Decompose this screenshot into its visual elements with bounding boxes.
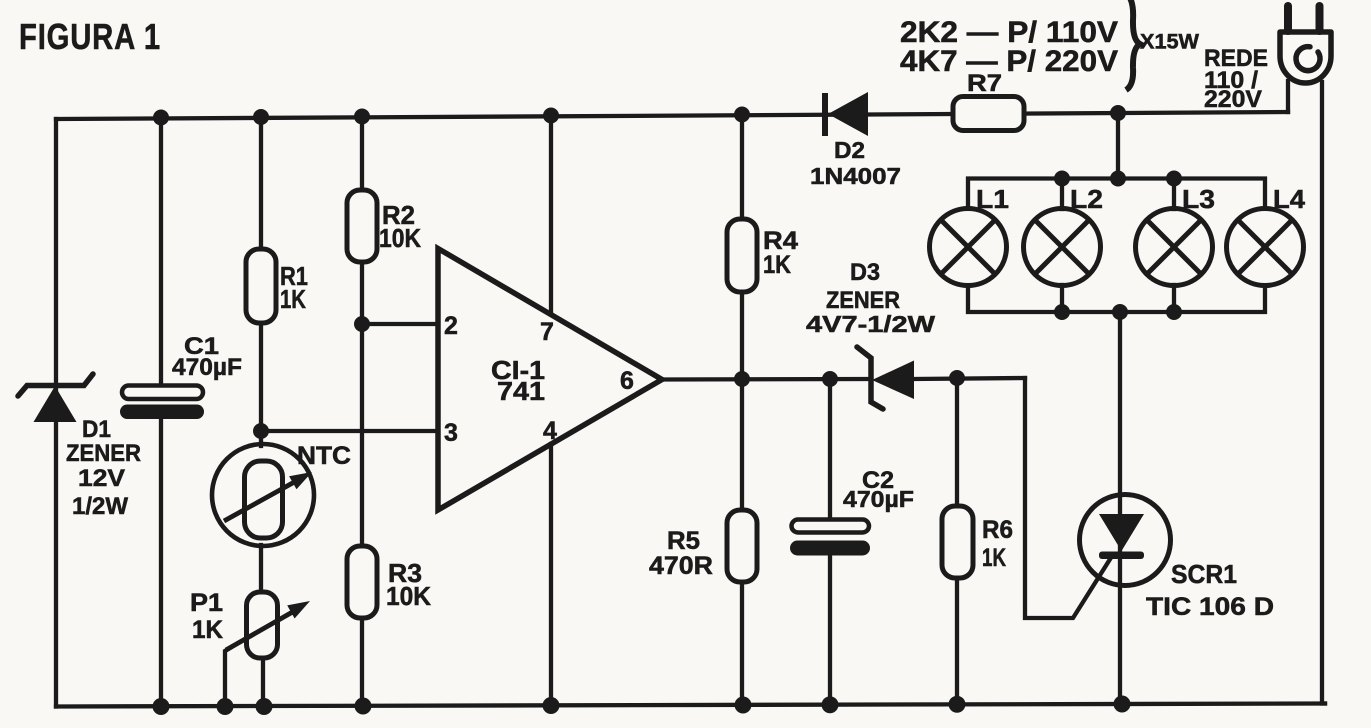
svg-text:3: 3 bbox=[444, 419, 458, 447]
svg-text:6: 6 bbox=[620, 367, 634, 395]
svg-text:7: 7 bbox=[540, 318, 554, 346]
svg-text:P1: P1 bbox=[190, 589, 223, 617]
svg-text:L2: L2 bbox=[1070, 184, 1103, 214]
svg-text:4K7 — P/ 220V: 4K7 — P/ 220V bbox=[900, 45, 1118, 78]
svg-text:1K: 1K bbox=[982, 544, 1006, 572]
svg-text:12V: 12V bbox=[78, 465, 125, 492]
svg-text:X15W: X15W bbox=[1140, 31, 1199, 54]
svg-text:470µF: 470µF bbox=[843, 486, 914, 512]
svg-text:470R: 470R bbox=[649, 552, 713, 580]
svg-text:R5: R5 bbox=[667, 527, 700, 555]
svg-text:1K: 1K bbox=[192, 616, 223, 644]
svg-text:4V7-1/2W: 4V7-1/2W bbox=[806, 311, 935, 337]
svg-text:1K: 1K bbox=[763, 251, 791, 279]
svg-text:R6: R6 bbox=[982, 516, 1013, 544]
svg-text:D3: D3 bbox=[850, 259, 880, 286]
svg-text:1N4007: 1N4007 bbox=[810, 163, 901, 189]
svg-text:1/2W: 1/2W bbox=[72, 493, 128, 520]
svg-text:SCR1: SCR1 bbox=[1171, 559, 1237, 589]
svg-text:D2: D2 bbox=[834, 137, 865, 163]
svg-text:741: 741 bbox=[497, 376, 545, 406]
svg-text:D1: D1 bbox=[82, 416, 111, 443]
svg-text:L1: L1 bbox=[976, 184, 1009, 214]
svg-text:10K: 10K bbox=[386, 581, 431, 611]
svg-text:FIGURA 1: FIGURA 1 bbox=[19, 16, 161, 57]
svg-text:TIC 106 D: TIC 106 D bbox=[1146, 593, 1274, 621]
svg-text:1K: 1K bbox=[280, 284, 306, 314]
svg-text:4: 4 bbox=[543, 417, 557, 445]
svg-text:2: 2 bbox=[444, 312, 458, 340]
svg-text:R7: R7 bbox=[967, 70, 1002, 97]
svg-text:L3: L3 bbox=[1182, 184, 1215, 214]
svg-text:L4: L4 bbox=[1273, 184, 1306, 214]
svg-text:ZENER: ZENER bbox=[826, 287, 900, 314]
svg-text:470µF: 470µF bbox=[172, 354, 242, 381]
svg-text:220V: 220V bbox=[1204, 86, 1262, 113]
svg-text:10K: 10K bbox=[379, 223, 421, 253]
svg-text:NTC: NTC bbox=[297, 442, 351, 470]
svg-text:ZENER: ZENER bbox=[66, 440, 141, 467]
